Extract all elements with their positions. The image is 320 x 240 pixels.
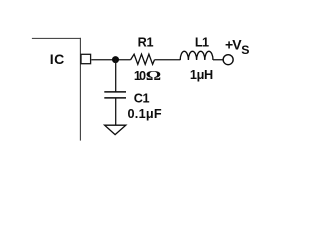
svg-text:Ω: Ω [146, 68, 162, 84]
svg-text:0.1μF: 0.1μF [128, 107, 162, 121]
svg-text:10: 10 [134, 69, 146, 83]
svg-text:L1: L1 [195, 36, 209, 50]
svg-text:IC: IC [50, 51, 65, 67]
svg-text:1μH: 1μH [190, 68, 213, 82]
svg-text:C1: C1 [134, 92, 150, 106]
svg-text:S: S [241, 43, 249, 57]
svg-text:R1: R1 [138, 36, 154, 50]
